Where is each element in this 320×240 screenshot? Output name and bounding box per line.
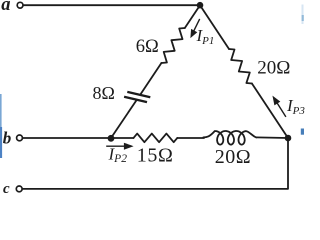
svg-text:15Ω: 15Ω (137, 145, 174, 167)
svg-text:20Ω: 20Ω (257, 58, 290, 79)
svg-text:b: b (3, 128, 12, 147)
svg-text:20Ω: 20Ω (215, 146, 251, 168)
svg-text:c: c (3, 181, 10, 197)
svg-text:6Ω: 6Ω (136, 37, 159, 57)
svg-text:a: a (1, 0, 10, 15)
svg-text:8Ω: 8Ω (93, 83, 115, 103)
